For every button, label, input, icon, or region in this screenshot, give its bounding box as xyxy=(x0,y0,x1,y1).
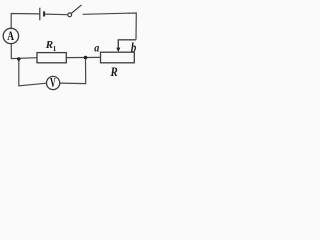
wire switch to top-right corner and right rail xyxy=(83,13,137,40)
wire rheostat to junction to R1 xyxy=(66,56,100,58)
svg-text:1: 1 xyxy=(53,45,57,53)
svg-text:b: b xyxy=(131,40,136,55)
rheostat slider arrowhead xyxy=(116,48,120,52)
wire R1 to left rail xyxy=(11,44,37,59)
svg-text:R: R xyxy=(110,65,118,79)
svg-text:V: V xyxy=(50,76,56,91)
resistor R1 box xyxy=(37,53,66,63)
wire voltmeter branch right xyxy=(60,59,86,83)
rheostat R box xyxy=(101,52,135,63)
wire voltmeter branch left xyxy=(19,61,47,86)
wire top-left segment xyxy=(11,14,40,29)
wire battery to switch xyxy=(45,13,68,16)
battery B long plate xyxy=(39,8,41,21)
switch S hinge circle xyxy=(68,13,72,17)
wire to rheostat slider xyxy=(118,40,136,48)
switch S blade (open) xyxy=(71,5,81,13)
ammeter A circle xyxy=(3,28,18,43)
voltmeter V circle xyxy=(47,76,60,89)
junction node left (dot) xyxy=(17,57,20,60)
svg-text:a: a xyxy=(94,42,100,55)
junction node right (dot) xyxy=(84,56,88,60)
svg-text:A: A xyxy=(7,30,14,44)
battery B short plate xyxy=(43,11,45,16)
